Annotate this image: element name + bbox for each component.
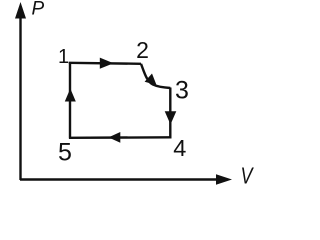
svg-text:P: P	[32, 0, 45, 20]
svg-text:3: 3	[175, 77, 189, 105]
wire 3-4 (right vertical)	[169, 88, 171, 138]
svg-text:2: 2	[136, 37, 149, 63]
arrow left on wire 4-5	[109, 132, 121, 143]
svg-text:1: 1	[58, 46, 69, 68]
arrow on curve 2-3	[145, 74, 157, 86]
P axis	[15, 2, 26, 180]
wire 5-1 (left vertical)	[69, 62, 71, 139]
wire 4-5 (bottom horizontal)	[69, 136, 172, 139]
svg-text:4: 4	[173, 135, 186, 161]
curve 2-3	[141, 64, 170, 88]
arrow right on wire 1-2	[100, 58, 114, 69]
V axis	[20, 174, 232, 184]
svg-text:V: V	[241, 163, 255, 189]
arrow up on wire 5-1	[65, 89, 76, 102]
arrow down on wire 3-4	[165, 111, 177, 124]
wire 1-2 (top horizontal)	[69, 63, 141, 64]
svg-text:5: 5	[58, 139, 72, 167]
